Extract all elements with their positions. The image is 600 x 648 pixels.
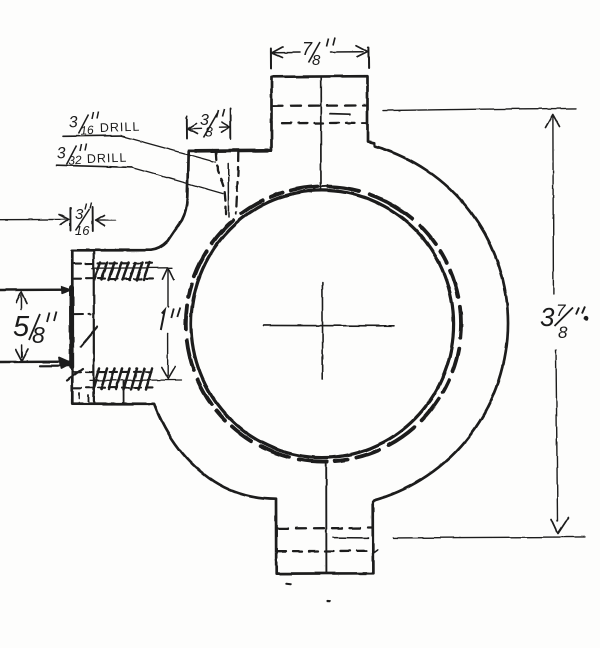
- stray dot at bottom center: [328, 600, 331, 602]
- dimension 3 7/8 bottom extension line: [393, 537, 585, 538]
- underline 3/32 drill: [57, 165, 132, 167]
- left boss bottom line: [0, 361, 71, 364]
- line from top thread row to 1in arrow: [92, 267, 172, 269]
- text 5/8: [13, 311, 57, 348]
- thread hatch top row strokes: [95, 263, 150, 280]
- dimension 7/8 ticks: [270, 49, 272, 69]
- svg-text:3: 3: [68, 114, 78, 132]
- dimension 3/16 ticks: [69, 208, 71, 232]
- text 7/8 top tab: [302, 38, 335, 70]
- dimension 3/16 left: extension line and arrows: [0, 218, 67, 220]
- svg-text:8: 8: [32, 322, 45, 348]
- part outline: [72, 76, 508, 573]
- thread hatch bottom row dashed lines: [74, 371, 150, 374]
- svg-text:16: 16: [80, 123, 95, 138]
- dimension 7/8 line and arrows: [274, 52, 300, 54]
- svg-text:8: 8: [205, 124, 213, 140]
- svg-text:5: 5: [13, 311, 30, 343]
- svg-text:3: 3: [540, 302, 555, 332]
- dimension 1in arrowheads: [162, 268, 173, 280]
- text 3/8 top: [200, 109, 225, 140]
- dimension 5/8 arrowheads: [16, 292, 27, 304]
- boss line arrow blob bottom: [59, 358, 72, 369]
- svg-text:DRILL: DRILL: [87, 151, 128, 166]
- svg-text:8: 8: [312, 52, 321, 69]
- center crosshair: [263, 324, 394, 326]
- thread hatch bottom row strokes: [94, 369, 153, 390]
- thick left edge of flange: [69, 288, 74, 368]
- small tick right of lower dashed line: [372, 550, 378, 554]
- line through bottom thread row to 1in arrow: [90, 379, 182, 381]
- hidden vertical dashes at flange bottom: [79, 393, 89, 404]
- text 3 7/8: [540, 301, 585, 342]
- dimension 3 7/8 v arrow bottom: [552, 518, 569, 534]
- svg-text:8: 8: [558, 323, 568, 342]
- dimension 3 7/8 caret arrow top: [546, 115, 560, 128]
- dimension 3 7/8 vertical line: [553, 117, 558, 521]
- dimension 5/8 vertical line: [20, 295, 22, 357]
- hidden dashes inside flange plate: [74, 313, 91, 315]
- short vertical below bottom threads: [123, 382, 125, 404]
- flange inner face line: [93, 250, 95, 403]
- svg-text:DRILL: DRILL: [100, 120, 141, 135]
- dashed bore circle: [138, 139, 508, 509]
- dot after 3 7/8 text: [584, 315, 589, 320]
- thread hatch top row dashed lines: [74, 262, 152, 264]
- text 3/16 left dimension: [75, 203, 92, 239]
- bottom tab hidden hole dashed lines: [278, 527, 372, 530]
- label 3/16 DRILL: [68, 112, 140, 139]
- svg-text:16: 16: [75, 223, 90, 238]
- dimension 3/8 arrows: [190, 127, 202, 129]
- drill hole 3/32 line: [227, 164, 229, 217]
- stray dot below bottom tab: [287, 583, 291, 586]
- top tab centerline: [320, 77, 322, 190]
- svg-text:32: 32: [68, 153, 83, 168]
- boss line arrow blob top: [61, 287, 71, 294]
- drill hole hidden lines (3/16): [216, 152, 225, 218]
- underline 3/16 drill: [63, 135, 121, 138]
- bottom tab centerline: [325, 462, 327, 574]
- bore circle: [191, 190, 454, 457]
- text 1 inch: [161, 308, 181, 331]
- diagonal slash near boss bottom: [67, 369, 84, 381]
- bottom tab short solid line: [333, 537, 368, 539]
- dimension 3 7/8 top extension line: [383, 108, 576, 110]
- diagonal slash through flange: [81, 327, 98, 347]
- left boss top line: [0, 289, 71, 292]
- leader line 3/16 drill: [121, 136, 216, 162]
- svg-text:3: 3: [56, 145, 66, 163]
- top tab hidden hole dashed lines: [273, 104, 366, 107]
- tick at bore top: [318, 185, 327, 188]
- label 3/32 DRILL: [56, 144, 127, 169]
- top tab short solid mark: [330, 113, 350, 116]
- dimension 1in vertical line: [167, 271, 169, 377]
- left boss bottom second line: [40, 365, 70, 367]
- thick shoulder edge above drill hole: [196, 149, 268, 153]
- dimension 3/8 ticks: [186, 117, 188, 139]
- leader line 3/32 drill: [131, 167, 223, 193]
